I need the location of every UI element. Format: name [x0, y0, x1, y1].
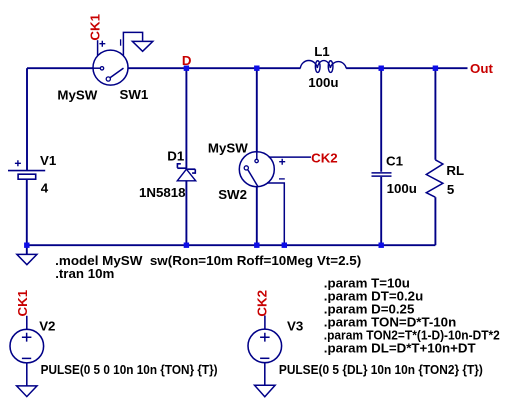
SW1 pivot dot [106, 77, 110, 81]
battery V1 [8, 160, 45, 179]
junction C1 bottom [379, 243, 384, 248]
junction node D [184, 66, 189, 71]
wire SW1 minus pin to ground flag [123, 32, 142, 55]
wire top rail right of L1 [346, 67, 467, 69]
V2 plus mark [22, 333, 32, 342]
SW2 plus mark [279, 159, 285, 165]
junction SW2 top [254, 66, 259, 71]
wire SW2 plus pin to CK2 [269, 156, 311, 158]
wire V3 top pin to CK2 [264, 316, 266, 329]
svg-text:L1: L1 [314, 44, 330, 59]
diode D1 (schottky) [177, 164, 195, 181]
SW2 minus mark [279, 178, 285, 180]
ground (V2) [17, 386, 37, 397]
svg-text:.tran 10m: .tran 10m [55, 266, 114, 281]
junction C1 top [379, 66, 384, 71]
V1 negative cell box [18, 174, 36, 179]
wire V2 bottom pin to ground [26, 363, 28, 385]
svg-text:MySW: MySW [208, 140, 248, 155]
V2 body circle [10, 329, 44, 363]
SW2 contact dot [255, 159, 258, 162]
svg-text:SW2: SW2 [218, 187, 247, 202]
wire SW2 bottom lead [256, 187, 258, 246]
C1 bottom plate [372, 175, 392, 177]
wire D1 top lead [185, 68, 187, 168]
svg-text:4: 4 [41, 181, 49, 196]
SW1 body circle [93, 50, 128, 85]
SW2 pivot dot [244, 166, 248, 170]
junction D1 bottom [184, 243, 189, 248]
wire RL bottom lead [434, 197, 436, 245]
wire RL top lead [434, 68, 436, 160]
junction V1 bottom [24, 243, 29, 248]
inductor L1 [300, 61, 346, 73]
SW1 contact dot [100, 67, 103, 70]
wire V2 top pin to CK1 [26, 316, 28, 330]
svg-text:1N5818: 1N5818 [139, 185, 186, 200]
SW2 lever [248, 170, 258, 187]
svg-text:.param DL=D*T+10n+DT: .param DL=D*T+10n+DT [324, 341, 476, 356]
D1 schottky hook left [177, 164, 180, 168]
wire top rail left of L1 [27, 67, 301, 69]
svg-text:SW1: SW1 [120, 87, 149, 102]
wire V3 bottom pin to ground [264, 363, 266, 385]
D1 schottky hook right [192, 169, 195, 173]
resistor RL [426, 160, 443, 197]
svg-text:CK2: CK2 [311, 150, 338, 165]
switch SW2 (MySW) [239, 152, 311, 246]
V3 minus mark [260, 357, 269, 359]
svg-text:PULSE(0 5 0 10n 10n {TON} {T}): PULSE(0 5 0 10n 10n {TON} {T}) [41, 362, 218, 377]
wire V1 bottom lead [26, 179, 28, 245]
SW1 left pin stub [93, 67, 100, 69]
svg-text:CK2: CK2 [255, 290, 270, 317]
svg-text:5: 5 [447, 182, 455, 197]
ground flag (SW1 minus pin) [132, 41, 152, 51]
junction SW2 minus [282, 243, 287, 248]
svg-text:C1: C1 [386, 154, 404, 169]
SW2 body circle [239, 152, 274, 187]
wire SW2 top lead [256, 68, 258, 152]
capacitor C1 [372, 173, 392, 176]
svg-text:V3: V3 [287, 318, 303, 333]
svg-text:V1: V1 [40, 153, 57, 168]
svg-text:RL: RL [446, 163, 464, 178]
wire SW2 minus pin to bottom rail [267, 183, 284, 245]
svg-text:CK1: CK1 [15, 289, 30, 316]
svg-text:100u: 100u [387, 181, 417, 196]
voltage source V3 [248, 316, 282, 386]
SW1 minus mark [120, 39, 122, 45]
D1 anode triangle [177, 169, 195, 181]
svg-text:CK1: CK1 [88, 13, 103, 40]
wire bottom rail [27, 244, 435, 246]
svg-text:D1: D1 [167, 148, 185, 163]
V3 body circle [248, 329, 282, 363]
SW1 plus control pin [97, 40, 99, 56]
SW1 plus mark [99, 41, 105, 47]
wire C1 bottom lead [380, 177, 382, 245]
svg-text:100u: 100u [308, 75, 338, 90]
wire V1 ground stem [26, 245, 28, 254]
wire D1 bottom lead [185, 181, 187, 245]
V1 plus mark [15, 160, 21, 166]
voltage source V2 [10, 316, 44, 386]
junction RL top [433, 66, 438, 71]
V3 plus mark [260, 333, 270, 342]
svg-text:D: D [182, 53, 192, 68]
ground (V3) [255, 385, 276, 397]
SW1 lever [110, 68, 123, 78]
svg-text:Out: Out [470, 61, 493, 76]
V2 minus mark [22, 357, 31, 359]
SW2 top pin stub [256, 152, 258, 159]
wire C1 top lead [380, 68, 382, 172]
C1 top plate [372, 172, 392, 174]
D1 cathode bar left [177, 167, 187, 169]
wire left rail (V1 branch) [26, 68, 28, 170]
switch SW1 (MySW) [93, 32, 143, 85]
junction SW2 bottom [254, 243, 259, 248]
svg-text:PULSE(0 5 {DL} 10n 10n {TON2}: PULSE(0 5 {DL} 10n 10n {TON2} {T}) [279, 362, 483, 377]
svg-text:V2: V2 [39, 318, 55, 333]
V1 positive plate [8, 170, 45, 172]
ground (V1) [17, 254, 37, 264]
svg-text:MySW: MySW [57, 87, 97, 102]
D1 cathode bar right [186, 168, 195, 170]
